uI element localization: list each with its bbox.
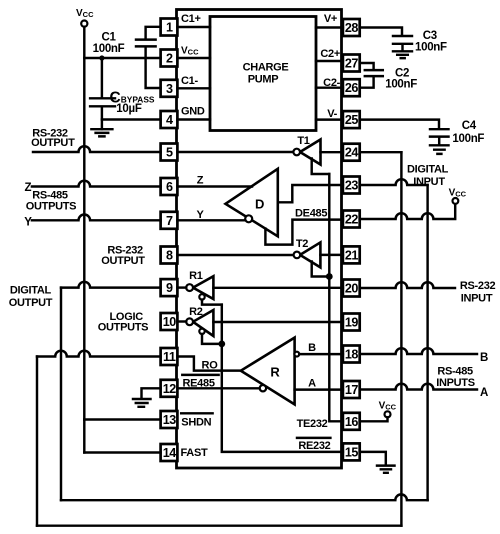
wire pin3 to charge pump C1- (177, 87, 210, 89)
ground C4 (430, 145, 449, 154)
driver D (226, 169, 278, 237)
svg-text:INPUT: INPUT (461, 292, 493, 304)
pin 9 box (161, 279, 178, 296)
svg-text:OUTPUTS: OUTPUTS (26, 200, 76, 212)
wire RE232 chain (222, 305, 343, 452)
pin 8 box (161, 247, 178, 264)
pin 22 box (343, 211, 360, 228)
wire VCC rail (83, 27, 85, 420)
wire D enable to pin22 (265, 220, 343, 245)
svg-text:VCC: VCC (449, 187, 467, 198)
pin 4 box (161, 111, 178, 128)
wire digital output to pin9 (61, 282, 161, 288)
wire pin2 VCC feed (84, 57, 160, 59)
wire pin9 to R1 output (177, 286, 186, 288)
wire pin5 to T1 output (177, 151, 293, 153)
pin 5 box (161, 144, 178, 161)
svg-text:11: 11 (163, 350, 176, 364)
wire RO loop vertical (36, 357, 38, 526)
R2 output bubble (186, 318, 193, 325)
svg-text:C2-: C2- (323, 77, 340, 89)
pin 10 box (161, 313, 178, 330)
svg-text:R1: R1 (189, 270, 203, 282)
svg-text:B: B (308, 342, 316, 354)
transmitter T2 (300, 242, 320, 267)
svg-text:8: 8 (166, 249, 173, 263)
pin 13 box (161, 411, 178, 428)
pin 7 box (161, 212, 178, 229)
svg-text:7: 7 (166, 214, 173, 228)
svg-text:25: 25 (345, 113, 359, 127)
svg-text:Z: Z (197, 175, 204, 187)
svg-text:1: 1 (166, 21, 173, 35)
pin 14 box (161, 444, 178, 461)
T2 output bubble (294, 252, 301, 259)
R1 enable bubble (199, 294, 204, 299)
ground C3 (393, 51, 412, 58)
svg-text:4: 4 (166, 113, 173, 127)
svg-text:2: 2 (166, 52, 173, 66)
wire T2IN loop vertical (426, 185, 428, 500)
wire D input to pin23 (278, 185, 343, 202)
svg-text:17: 17 (345, 383, 359, 397)
svg-text:CHARGE: CHARGE (243, 62, 289, 74)
svg-text:23: 23 (345, 179, 359, 193)
IC U1 outline (177, 10, 342, 469)
svg-text:VCC: VCC (181, 46, 199, 57)
pin 6 box (161, 178, 178, 195)
pin 12 box (161, 380, 178, 397)
svg-text:RE232: RE232 (298, 440, 330, 452)
svg-text:VCC: VCC (76, 8, 94, 19)
svg-text:D: D (255, 197, 264, 212)
svg-text:OUTPUT: OUTPUT (9, 297, 53, 309)
svg-text:100nF: 100nF (93, 43, 125, 55)
pin 25 box (343, 111, 360, 128)
svg-text:Y: Y (196, 209, 204, 221)
pin 27 box (343, 55, 360, 72)
wire R1 input to pin20 (213, 287, 343, 289)
wire T1 enable (312, 159, 330, 175)
wire VCC rail lower (83, 420, 85, 453)
pin 17 box (343, 381, 360, 398)
svg-text:R2: R2 (189, 306, 203, 318)
pin 16 box (343, 413, 360, 430)
svg-text:A: A (480, 387, 488, 399)
svg-text:15: 15 (345, 445, 359, 459)
svg-text:T1: T1 (297, 135, 309, 147)
wire charge pump V+ to pin28 (316, 26, 343, 28)
svg-text:14: 14 (163, 446, 177, 460)
svg-text:A: A (308, 377, 316, 389)
svg-text:6: 6 (166, 180, 173, 194)
wire pin24 digital input (360, 151, 402, 153)
wire pin20 RS-232 input (360, 282, 455, 288)
svg-text:V+: V+ (324, 13, 337, 25)
wire pin13 SHDN to VCC rail (84, 418, 160, 420)
svg-text:3: 3 (166, 82, 173, 96)
svg-text:C1-: C1- (181, 75, 198, 87)
pin 18 box (343, 346, 360, 363)
svg-text:DE485: DE485 (295, 208, 327, 220)
wire pin14 FAST to VCC rail (84, 451, 160, 453)
svg-text:100nF: 100nF (415, 42, 447, 54)
pin 3 box (161, 80, 178, 97)
wire T1 input to pin24 (321, 151, 343, 153)
svg-text:10µF: 10µF (116, 103, 142, 115)
svg-text:Z: Z (24, 182, 31, 194)
wire T1IN loop vertical (400, 152, 402, 526)
svg-text:T2: T2 (296, 238, 308, 250)
svg-text:10: 10 (163, 315, 177, 329)
wire pin2 to charge pump VCC (177, 57, 210, 59)
svg-text:28: 28 (345, 21, 359, 35)
wire charge pump C2- to pin26 (316, 86, 343, 88)
wire charge pump C2+ to pin27 (316, 60, 343, 62)
wire pin11 to R output RO (177, 357, 241, 371)
wire pin26 to C2 (360, 77, 374, 88)
svg-text:DIGITAL: DIGITAL (10, 285, 52, 297)
ground Cbypass (91, 129, 112, 136)
svg-text:24: 24 (345, 146, 359, 160)
svg-text:OUTPUTS: OUTPUTS (98, 322, 148, 334)
svg-text:DIGITAL: DIGITAL (407, 164, 449, 176)
wire pin17 A (360, 384, 477, 390)
wire pin28 to C3 (360, 28, 402, 36)
transmitter T1 (300, 140, 321, 165)
svg-text:PUMP: PUMP (248, 74, 279, 86)
wire pin18 B (360, 348, 477, 354)
wire pin8 to T2 output (177, 254, 293, 256)
ground RE485 (133, 399, 151, 407)
svg-text:VCC: VCC (379, 400, 397, 411)
svg-text:21: 21 (345, 248, 359, 262)
capacitor C2 (365, 70, 383, 76)
svg-text:13: 13 (163, 413, 177, 427)
svg-text:26: 26 (345, 81, 359, 95)
wire TE232 vertical (329, 174, 343, 421)
svg-text:C2+: C2+ (320, 48, 340, 60)
pin 26 box (343, 79, 360, 96)
svg-text:RO: RO (202, 359, 219, 371)
wire R input B to pin18 (299, 353, 343, 355)
svg-text:5: 5 (166, 146, 173, 160)
wire pin22 DE485 to VCC (360, 204, 456, 219)
wire pin6 to D output Z (177, 185, 252, 187)
svg-text:V-: V- (327, 108, 337, 120)
wire pin25 to C4 (360, 120, 439, 129)
svg-text:100nF: 100nF (385, 78, 417, 90)
wire pin10 to R2 output (177, 320, 186, 322)
svg-text:OUTPUT: OUTPUT (101, 255, 145, 267)
pin 20 box (343, 280, 360, 297)
svg-text:9: 9 (166, 281, 173, 295)
wire R1OUT loop vertical (60, 288, 62, 501)
pin 2 box (161, 50, 178, 67)
svg-text:INPUTS: INPUTS (436, 377, 475, 389)
wire R1 enable (202, 300, 222, 305)
wire T2 enable (312, 262, 327, 277)
capacitor C4 (430, 129, 449, 145)
wire pin27 to C2 (360, 63, 374, 70)
svg-text:22: 22 (345, 213, 359, 227)
svg-text:R: R (270, 364, 280, 379)
svg-text:C1+: C1+ (181, 13, 201, 25)
svg-text:B: B (480, 352, 488, 364)
wire pin12 to R enable (177, 387, 259, 389)
R1 output bubble (186, 284, 193, 291)
D output Y bubble (245, 215, 252, 222)
svg-text:100nF: 100nF (452, 133, 484, 145)
wire R2 input to pin19 (213, 321, 343, 323)
capacitor C1 (136, 27, 161, 88)
svg-text:16: 16 (345, 415, 359, 429)
wire pin4 GND feed (102, 118, 161, 120)
receiver R2 (193, 310, 213, 336)
pin 1 box (161, 19, 178, 36)
svg-text:18: 18 (345, 348, 359, 362)
receiver R (241, 338, 295, 405)
capacitor C3 (393, 36, 412, 51)
svg-text:19: 19 (345, 316, 359, 330)
wire R input A to pin17 (295, 388, 343, 390)
svg-text:TE232: TE232 (297, 418, 328, 430)
wire loop bus lower (61, 494, 428, 500)
svg-text:RE485: RE485 (183, 377, 215, 389)
wire loop bus bottom (37, 524, 401, 526)
pin 19 box (343, 314, 360, 331)
pin 28 box (343, 19, 360, 36)
wire charge pump V- to pin25 (316, 118, 343, 120)
svg-text:12: 12 (163, 382, 177, 396)
wire Z to pin6 (32, 181, 161, 187)
junction T2 enable (326, 273, 333, 280)
svg-text:C1: C1 (101, 31, 116, 43)
wire R2 enable (202, 334, 218, 344)
pin 24 box (343, 144, 360, 161)
pin 23 box (343, 177, 360, 194)
receiver R1 (193, 276, 213, 299)
junction R2 enable (218, 341, 225, 348)
pin 15 box (343, 443, 360, 460)
svg-text:C4: C4 (462, 120, 477, 132)
wire RS-232 output to pin5 (33, 146, 161, 152)
svg-text:GND: GND (181, 106, 205, 118)
wire T2 input to pin21 (320, 254, 343, 256)
wire pin7 to D output Y (177, 219, 245, 221)
pin 11 box (161, 348, 178, 365)
svg-text:20: 20 (345, 282, 359, 296)
wire pin4 to charge pump GND (177, 118, 210, 120)
wire pin16 to VCC (360, 417, 388, 421)
svg-text:RS-485: RS-485 (437, 365, 473, 377)
pin 21 box (343, 246, 360, 263)
T1 output bubble (293, 149, 300, 156)
R input B bubble (294, 352, 299, 357)
svg-text:C3: C3 (423, 30, 437, 42)
junction Cbypass tap (99, 55, 104, 60)
svg-text:SHDN: SHDN (181, 417, 211, 429)
svg-text:Y: Y (24, 217, 32, 229)
charge pump block (210, 17, 316, 131)
svg-text:OUTPUT: OUTPUT (31, 137, 75, 149)
wire RO loop to pin11 (37, 351, 161, 357)
svg-text:RS-232: RS-232 (460, 280, 496, 292)
capacitor Cbypass (90, 58, 115, 129)
R2 enable bubble (199, 329, 204, 334)
ground RE232 (377, 466, 395, 473)
svg-text:FAST: FAST (181, 447, 208, 459)
svg-text:27: 27 (345, 57, 359, 71)
wire pin12 to ground (142, 388, 161, 398)
R enable bubble (260, 385, 266, 391)
wire pin15 to ground (360, 452, 386, 465)
wire pin23 (360, 179, 428, 185)
wire Y to pin7 (32, 215, 161, 221)
wire pin1 to charge pump C1+ (177, 26, 210, 28)
